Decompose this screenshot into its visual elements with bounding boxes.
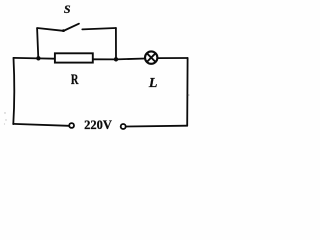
node junction dot right	[114, 57, 118, 61]
svg-text:L: L	[148, 76, 158, 91]
wire switch branch right vertical	[115, 28, 117, 59]
lamp L	[145, 51, 157, 63]
wire switch branch top-right segment	[82, 28, 116, 29]
wire top-left corner to resistor	[14, 57, 56, 60]
svg-text:R: R	[71, 72, 79, 88]
wire left vertical	[13, 58, 14, 124]
resistor R	[55, 53, 93, 62]
battery terminal right	[121, 124, 126, 129]
wire right vertical	[186, 58, 188, 126]
svg-text:220V: 220V	[84, 118, 112, 132]
wire bottom-left terminal to corner	[13, 124, 69, 126]
svg-text:S: S	[64, 2, 71, 16]
wire bottom-right to terminal	[126, 125, 187, 128]
wire right junction to lamp	[116, 58, 146, 61]
node junction dot left	[36, 56, 40, 60]
wire resistor to right junction	[93, 58, 116, 60]
wire lamp to top-right corner	[157, 57, 187, 59]
wire switch branch top-left segment	[37, 28, 63, 31]
battery terminal left	[69, 123, 74, 128]
switch S blade	[63, 24, 79, 31]
switch S pivot dot	[62, 29, 65, 32]
wire switch branch left vertical	[37, 28, 38, 58]
